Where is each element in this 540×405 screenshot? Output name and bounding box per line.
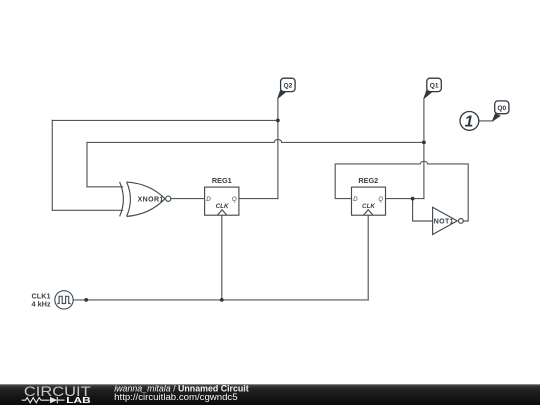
wire REG1 CLK drop bbox=[221, 215, 223, 300]
wire REG2 CLK drop bbox=[367, 215, 369, 300]
flag Q1 bbox=[424, 78, 442, 98]
wire outer feedback top horizontal y=120.4 bbox=[52, 119, 278, 121]
svg-text:D: D bbox=[206, 196, 211, 203]
svg-text:Q: Q bbox=[378, 196, 383, 203]
wire outer feedback left vertical x=52.3 bbox=[51, 120, 53, 210]
wire inner feedback left vertical x=87 bbox=[86, 142, 88, 186]
inverter NOT1 bbox=[433, 207, 464, 234]
junction dot (424,142.4) bbox=[422, 141, 426, 145]
svg-text:LAB: LAB bbox=[66, 395, 90, 405]
D flip-flop REG1 bbox=[205, 187, 239, 215]
svg-text:1: 1 bbox=[465, 114, 474, 131]
wire inner feedback to XNOR1 upper input bbox=[87, 186, 123, 188]
CircuitLab logo wordmark bbox=[22, 384, 91, 405]
svg-text:4 kHz: 4 kHz bbox=[32, 300, 51, 309]
wire NOT1 output to top feedback, hop over x=424, down to REG2 D bbox=[335, 161, 468, 221]
svg-text:REG1: REG1 bbox=[212, 176, 232, 185]
clock source CLK1 bbox=[55, 291, 73, 309]
wire long horizontal y=142.4 with hop over x=278 bbox=[87, 139, 424, 142]
wire branch from junction down to NOT1 input bbox=[413, 199, 433, 221]
svg-text:Q0: Q0 bbox=[497, 105, 506, 112]
svg-text:CLK: CLK bbox=[216, 203, 229, 210]
svg-text:REG2: REG2 bbox=[358, 176, 378, 185]
footer bar bbox=[0, 384, 540, 405]
svg-text:Q1: Q1 bbox=[430, 83, 439, 90]
wire vertical riser x=424 (Q1 net) bbox=[423, 98, 425, 198]
flag Q0 bbox=[492, 101, 509, 121]
wire clock bus from CLK1 bbox=[73, 299, 368, 301]
XNOR gate XNOR1 bbox=[120, 182, 171, 216]
junction dot (412.6,198.6) bbox=[411, 197, 415, 201]
svg-text:D: D bbox=[353, 196, 358, 203]
node 1 logic-state indicator bbox=[460, 112, 479, 131]
junction dot (86,300) bbox=[84, 298, 88, 302]
svg-text:XNOR1: XNOR1 bbox=[138, 196, 164, 203]
flag Q2 bbox=[278, 78, 296, 98]
junction dot (222,300) bbox=[220, 298, 224, 302]
wire outer feedback to XNOR1 lower input bbox=[52, 209, 122, 211]
svg-text:Q2: Q2 bbox=[284, 83, 293, 90]
wire REG1 Q to vertical riser bbox=[239, 198, 278, 200]
D flip-flop REG2 bbox=[352, 187, 386, 215]
svg-text:http://circuitlab.com/cgwndc5: http://circuitlab.com/cgwndc5 bbox=[114, 392, 237, 402]
wire XNOR1 output to REG1 D bbox=[171, 198, 204, 200]
junction dot (278,120.4) bbox=[276, 119, 280, 123]
svg-text:NOT1: NOT1 bbox=[434, 219, 454, 226]
svg-text:Q: Q bbox=[232, 196, 237, 203]
wire node 1 to Q0 flag bbox=[479, 120, 493, 122]
wire vertical riser x=278 (Q2 net) bbox=[277, 98, 279, 198]
svg-text:CLK: CLK bbox=[362, 203, 375, 210]
wire REG2 Q to vertical riser x=424 bbox=[385, 198, 424, 200]
